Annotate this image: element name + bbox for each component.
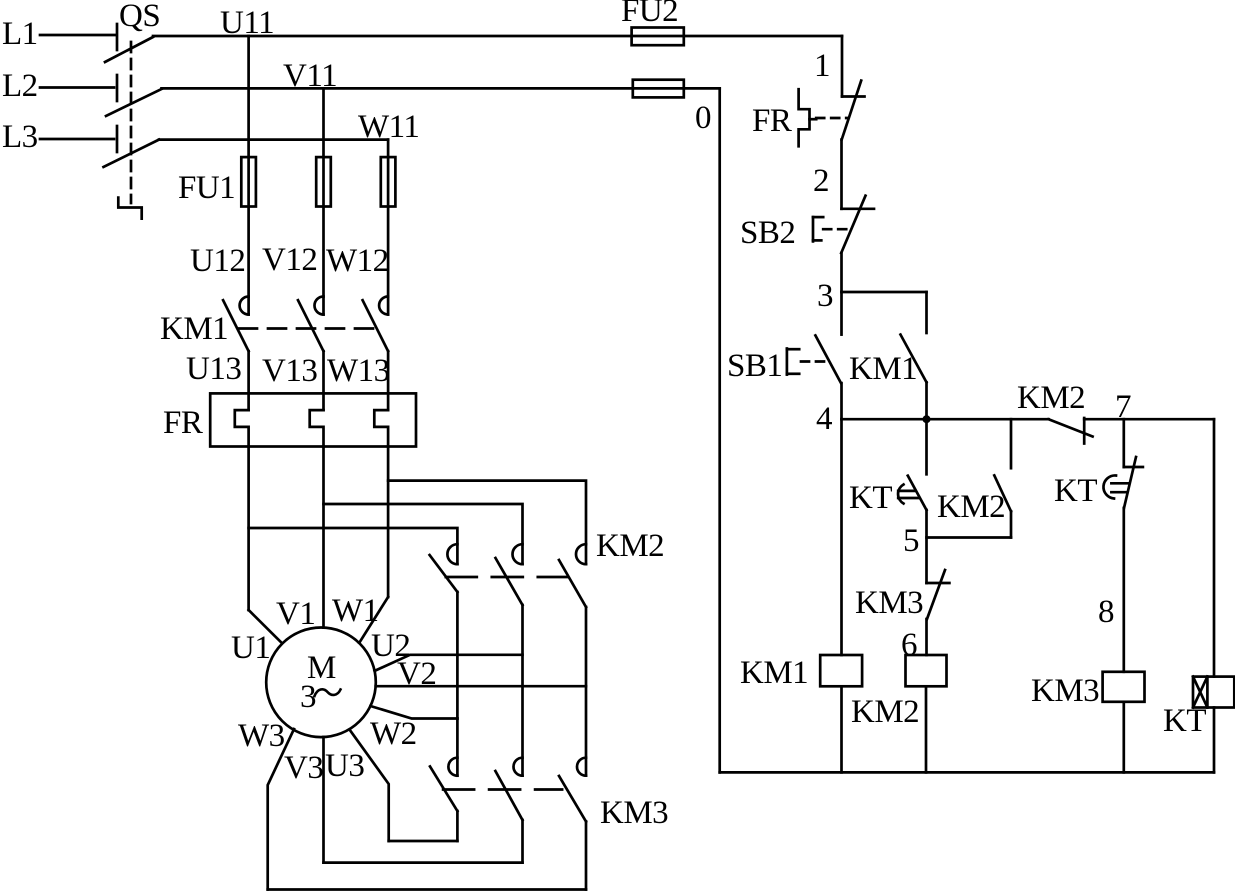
wire V3 bottom bbox=[324, 861, 523, 864]
wire 1-2 bbox=[840, 140, 843, 209]
wire left rail to KM1 coil bbox=[840, 419, 843, 655]
fuse FU2a bbox=[632, 28, 684, 46]
wire U column to motor bbox=[249, 447, 283, 644]
switch QS pole 1 bbox=[105, 24, 153, 62]
svg-text:U3: U3 bbox=[325, 748, 364, 784]
wire V11 bbox=[162, 87, 720, 90]
wire U11 bbox=[153, 35, 842, 38]
svg-text:W13: W13 bbox=[327, 353, 390, 389]
contactor KM1 aux NO contact bbox=[901, 292, 927, 419]
SB1 link dashed bbox=[801, 360, 828, 363]
svg-text:KM2: KM2 bbox=[937, 489, 1005, 525]
motor M circle bbox=[266, 628, 376, 738]
QS linkage dashed bbox=[130, 42, 133, 203]
svg-text:8: 8 bbox=[1098, 594, 1114, 630]
svg-text:KM2: KM2 bbox=[596, 528, 664, 564]
svg-text:W1: W1 bbox=[332, 593, 379, 629]
contactor KM2 NC contact (horizontal) bbox=[1049, 418, 1093, 444]
coil KM3 bbox=[1103, 672, 1145, 702]
svg-text:U1: U1 bbox=[231, 630, 270, 666]
wire W11 bbox=[159, 138, 388, 141]
contactor KM3 main contact a bbox=[430, 758, 457, 841]
wire KT coil to rail 0 bbox=[1213, 708, 1216, 773]
svg-text:V12: V12 bbox=[262, 242, 317, 278]
coil KM1 bbox=[820, 655, 862, 686]
wire W column to motor bbox=[359, 447, 388, 643]
contactor KM3 main contact c bbox=[559, 758, 586, 890]
label 3~ bbox=[300, 679, 341, 715]
KM1 linkage dashed bbox=[239, 327, 374, 330]
wire node 4 to KT coil bbox=[1213, 419, 1216, 676]
wire U column upper bbox=[247, 36, 250, 315]
wire U3 bottom bbox=[389, 840, 458, 843]
QS handle bbox=[118, 198, 141, 219]
wire KM2 coil to rail 0 bbox=[925, 686, 928, 772]
wire KM1 coil to rail 0 bbox=[840, 686, 843, 772]
wire rail 0 bbox=[718, 88, 721, 772]
svg-text:V13: V13 bbox=[262, 353, 317, 389]
contactor KM1 main contact c bbox=[363, 297, 389, 352]
FR heater element b bbox=[310, 351, 324, 446]
wire L1 bbox=[40, 34, 116, 37]
wire rail 1 bbox=[841, 36, 844, 97]
contactor KM1 main contact b bbox=[298, 297, 324, 352]
wire W3 leg bbox=[268, 729, 294, 890]
svg-text:KT: KT bbox=[849, 480, 892, 516]
svg-text:W12: W12 bbox=[326, 243, 389, 279]
fuse FU1c bbox=[381, 157, 396, 206]
svg-text:SB2: SB2 bbox=[740, 215, 795, 251]
svg-text:V1: V1 bbox=[276, 596, 315, 632]
svg-text:3: 3 bbox=[817, 278, 833, 314]
FR heater element c bbox=[374, 351, 388, 446]
svg-text:L1: L1 bbox=[2, 16, 38, 52]
wire branch V to KM2b bbox=[324, 504, 523, 564]
svg-text:KM3: KM3 bbox=[600, 795, 668, 831]
svg-text:QS: QS bbox=[119, 0, 160, 34]
wire node 4 left bbox=[842, 418, 1049, 421]
wire branch W to KM2c bbox=[388, 481, 586, 565]
FR NC contact bbox=[842, 81, 865, 140]
svg-text:V3: V3 bbox=[284, 750, 323, 786]
fuse FU1a bbox=[241, 157, 256, 206]
contactor KM2 main contact b bbox=[496, 544, 523, 776]
wire L3 bbox=[40, 138, 114, 141]
svg-text:KT: KT bbox=[1163, 703, 1206, 739]
wire W2 tap bbox=[370, 706, 457, 719]
SB2 link dashed bbox=[823, 228, 851, 231]
svg-text:FU1: FU1 bbox=[178, 170, 235, 206]
svg-text:KM1: KM1 bbox=[849, 351, 917, 387]
svg-text:0: 0 bbox=[695, 100, 711, 136]
wire V3 leg bbox=[322, 737, 325, 863]
KM3 linkage dashed bbox=[443, 788, 562, 791]
pushbutton SB1 (start, NO) bbox=[787, 335, 841, 383]
contactor KM1 main contact a bbox=[223, 297, 249, 352]
KM2 linkage dashed bbox=[446, 576, 568, 579]
svg-text:FR: FR bbox=[163, 405, 203, 441]
fuse FU1b bbox=[316, 157, 331, 206]
wire node 3 branch bbox=[842, 291, 927, 294]
contactor KM2 main contact a bbox=[430, 544, 458, 776]
contactor KM3 main contact b bbox=[495, 758, 522, 863]
pushbutton SB2 (stop, NC) bbox=[813, 196, 874, 253]
wire KM3 coil to rail 0 bbox=[1122, 702, 1125, 773]
coil KT (time relay) bbox=[1193, 677, 1234, 708]
svg-text:FR: FR bbox=[752, 103, 792, 139]
contactor KM3 NC contact bbox=[927, 570, 950, 655]
FR link dashed bbox=[816, 117, 847, 120]
wire SB1 to node 4 bbox=[840, 383, 843, 419]
svg-text:U13: U13 bbox=[186, 351, 241, 387]
FR heater element a bbox=[235, 351, 249, 446]
wire V column to motor bbox=[322, 447, 325, 628]
svg-text:KM1: KM1 bbox=[160, 311, 228, 347]
junction node 4 bbox=[923, 415, 931, 423]
fuse FU2b bbox=[633, 80, 684, 98]
svg-text:4: 4 bbox=[816, 401, 832, 437]
svg-text:W3: W3 bbox=[238, 718, 285, 754]
wire node 5 bbox=[927, 536, 1012, 539]
svg-text:U12: U12 bbox=[190, 243, 245, 279]
wire U3 leg bbox=[350, 730, 389, 842]
wire 2-3 bbox=[840, 253, 843, 292]
wire node 4 right bbox=[1084, 418, 1214, 421]
svg-text:6: 6 bbox=[901, 627, 917, 663]
svg-text:KM3: KM3 bbox=[1031, 673, 1099, 709]
wire bottom rail bbox=[720, 771, 1214, 774]
wire 3 down bbox=[840, 292, 843, 335]
switch QS pole 2 bbox=[106, 75, 162, 116]
wire V2 tap bbox=[376, 685, 586, 688]
thermal relay FR box bbox=[210, 393, 416, 446]
wire W3 bottom bbox=[268, 888, 586, 891]
svg-text:KM2: KM2 bbox=[1017, 380, 1085, 416]
thermal relay FR heater symbol bbox=[799, 89, 817, 146]
svg-text:KM3: KM3 bbox=[855, 585, 923, 621]
svg-text:KM2: KM2 bbox=[851, 694, 919, 730]
svg-text:1: 1 bbox=[814, 48, 830, 84]
svg-text:5: 5 bbox=[903, 523, 919, 559]
contactor KM2 aux NO contact bbox=[994, 419, 1011, 537]
coil KM2 bbox=[906, 655, 947, 686]
wire V column upper bbox=[322, 88, 325, 314]
svg-text:FU2: FU2 bbox=[621, 0, 678, 29]
wire W column upper bbox=[387, 140, 390, 315]
svg-text:2: 2 bbox=[813, 163, 829, 199]
svg-text:KT: KT bbox=[1054, 473, 1097, 509]
svg-text:L3: L3 bbox=[2, 119, 38, 155]
switch QS pole 3 bbox=[104, 126, 160, 167]
svg-text:W2: W2 bbox=[370, 716, 417, 752]
timer KT NC delayed-open contact bbox=[1103, 419, 1142, 508]
svg-text:KM1: KM1 bbox=[740, 655, 808, 691]
contactor KM2 main contact c bbox=[559, 544, 586, 776]
wire branch U to KM2a bbox=[249, 528, 458, 564]
wire U2 tap bbox=[375, 655, 523, 671]
timer KT NO delayed-close contact bbox=[898, 419, 926, 583]
wire L2 bbox=[40, 86, 114, 89]
wire 7-8 down bbox=[1122, 508, 1125, 672]
svg-text:L2: L2 bbox=[2, 68, 38, 104]
svg-text:SB1: SB1 bbox=[727, 348, 782, 384]
